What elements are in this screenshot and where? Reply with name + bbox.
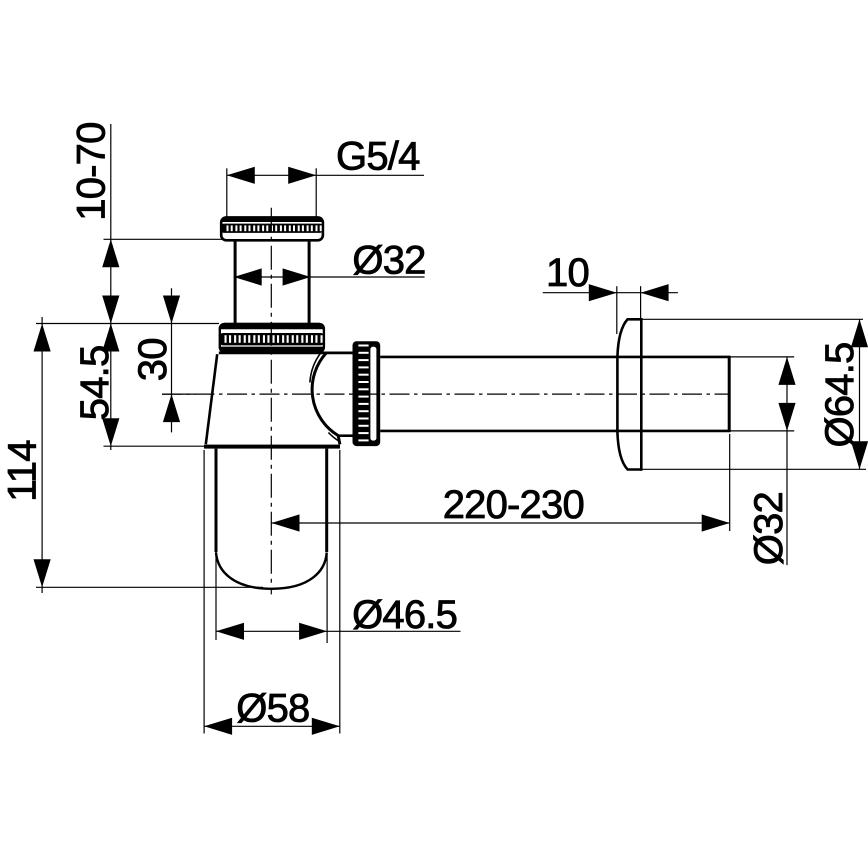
svg-text:54.5: 54.5 [73, 346, 117, 421]
svg-text:Ø64.5: Ø64.5 [818, 343, 862, 448]
horizontal centerline [162, 393, 730, 395]
dimension 30 [131, 288, 196, 432]
svg-text:10-70: 10-70 [69, 122, 113, 220]
trap body cone [206, 353, 354, 444]
svg-text:Ø32: Ø32 [352, 239, 425, 283]
dimension diameter 32 outlet [730, 357, 796, 565]
dimension 10 flange [543, 251, 678, 334]
body flange [204, 445, 340, 449]
svg-text:Ø32: Ø32 [747, 492, 791, 565]
dimension G5/4 [227, 135, 424, 217]
elbow ball [310, 353, 340, 445]
outlet pipe [380, 356, 730, 432]
svg-text:Ø46.5: Ø46.5 [352, 593, 457, 637]
svg-text:220-230: 220-230 [443, 483, 584, 527]
svg-text:G5/4: G5/4 [336, 135, 420, 179]
outlet coupling nut [353, 341, 381, 446]
cup [216, 449, 327, 589]
dimension diameter 32 tailpiece [234, 239, 426, 286]
svg-text:10: 10 [546, 251, 589, 295]
svg-text:Ø58: Ø58 [236, 687, 309, 731]
dimension diameter 46.5 cup [216, 548, 461, 643]
dimension diameter 64.5 flange [627, 319, 868, 469]
dimension 114 [1, 317, 263, 593]
svg-text:30: 30 [131, 338, 175, 381]
dimension 10-70 [69, 122, 222, 450]
dimension 220-230 [272, 434, 730, 532]
dimension 54.5 [36, 324, 219, 447]
vertical centerline [270, 208, 272, 595]
svg-text:114: 114 [1, 440, 45, 502]
bottom coupling nut [219, 324, 324, 352]
wall flange [617, 318, 641, 471]
tailpiece pipe [235, 240, 309, 324]
elbow outlet stub [339, 434, 354, 437]
dimension diameter 58 flange [204, 450, 340, 735]
top coupling nut G5/4 [220, 217, 323, 240]
